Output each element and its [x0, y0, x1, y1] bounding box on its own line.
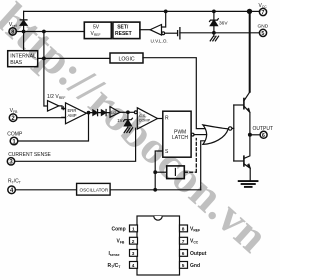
svg-text:R: R	[165, 116, 169, 122]
svg-text:Comp: Comp	[112, 226, 126, 232]
pin 8 Vref circle	[9, 28, 16, 35]
wire UVLO to battery	[165, 32, 178, 34]
pin 5 GND circle	[259, 29, 266, 36]
svg-text:Output: Output	[190, 251, 207, 257]
svg-text:SET/: SET/	[117, 25, 129, 31]
svg-text:CURRENT SENSE: CURRENT SENSE	[8, 152, 51, 158]
logic gate NOR	[203, 125, 228, 144]
wire S riser	[155, 151, 163, 190]
box 5V Vref	[84, 22, 111, 38]
svg-text:1: 1	[132, 227, 135, 233]
zener 36V	[213, 11, 215, 32]
wire osc riser to gate	[201, 141, 205, 190]
svg-text:7: 7	[182, 239, 185, 245]
wire diode chain	[89, 112, 111, 114]
pin 3 CURRENT SENSE circle	[7, 158, 14, 165]
svg-text:COMP: COMP	[7, 132, 23, 138]
pin 6 OUTPUT circle	[260, 131, 267, 138]
node dot UVLO tap	[164, 10, 168, 14]
node dot zener bottom	[212, 31, 216, 35]
svg-text:6: 6	[182, 251, 185, 257]
wire NOR out to bases	[232, 127, 234, 129]
transistor Q1 top	[243, 99, 245, 109]
wire pin4 to oscillator	[15, 189, 76, 191]
svg-text:VFB: VFB	[10, 108, 19, 114]
wire buffer to err amp	[59, 106, 66, 109]
wire to T box	[155, 171, 167, 173]
zener 1V clamp	[127, 112, 129, 128]
box LOGIC	[110, 53, 143, 63]
svg-text:5V: 5V	[93, 25, 100, 31]
diode D2	[93, 110, 97, 115]
T box one-shot	[167, 166, 185, 179]
CS comp input bubble	[134, 111, 137, 114]
node dot err out	[87, 111, 91, 115]
pin 3 box	[130, 250, 138, 257]
pin 8 box	[180, 225, 188, 232]
transistor Q2 bottom	[243, 156, 245, 166]
wire ground rail	[180, 32, 260, 34]
DIP-8 package pinout	[130, 216, 188, 275]
pin 1 COMP circle	[10, 137, 18, 145]
node dot S lower	[153, 188, 157, 192]
box SET/RESET	[113, 22, 140, 38]
svg-text:2: 2	[132, 239, 135, 245]
wire gain out	[120, 111, 128, 113]
svg-text:GND: GND	[258, 23, 269, 29]
pin 2 Vfb circle	[9, 114, 17, 122]
pin 6 box	[180, 250, 188, 257]
diode D3	[101, 110, 105, 115]
pin 5 box	[180, 262, 188, 269]
pin 7 Vcc circle	[259, 8, 266, 15]
wire top rail	[24, 10, 250, 12]
pin 4 RT/CT circle	[8, 186, 16, 194]
notch	[154, 216, 162, 220]
NOR output bubble	[229, 127, 232, 130]
svg-text:5: 5	[182, 263, 185, 269]
op-amp ERR AMP	[66, 103, 87, 124]
wire pin8 to 5V box	[16, 31, 84, 33]
wire base vertical	[233, 105, 235, 161]
internal bias box	[8, 51, 38, 67]
wire osc output	[110, 189, 201, 191]
ground symbol output	[239, 180, 258, 182]
pin 4 box	[130, 262, 138, 269]
svg-text:VCC: VCC	[190, 239, 199, 245]
node dot B	[42, 30, 46, 34]
diode D1 top-left	[20, 21, 27, 26]
wire bias to logic	[38, 57, 110, 59]
svg-text:VREF: VREF	[190, 226, 200, 232]
svg-text:RT/CT: RT/CT	[108, 263, 122, 269]
amp 1/2 Vref buffer	[48, 101, 59, 112]
wire logic down to gate	[143, 58, 205, 129]
svg-text:4: 4	[132, 263, 135, 269]
svg-text:OSCILLATOR: OSCILLATOR	[80, 188, 109, 193]
op-amp U.V.L.O. comparator	[150, 25, 161, 36]
battery reference symbol	[178, 28, 180, 39]
op-amp C.S. COMP	[137, 108, 157, 129]
svg-text:RESET: RESET	[115, 31, 132, 37]
svg-text:3: 3	[132, 251, 135, 257]
wire Q to gate	[194, 134, 207, 136]
node dot output	[248, 133, 252, 137]
svg-text:AMP: AMP	[68, 113, 77, 118]
wire Vref diode branch	[20, 11, 27, 50]
wire UVLO top input	[162, 11, 166, 27]
pulse symbol in T box	[174, 169, 176, 176]
svg-text:8: 8	[182, 227, 185, 233]
node dot T tap	[153, 170, 157, 174]
svg-text:36V: 36V	[219, 21, 228, 27]
node dot Vcc big	[247, 9, 252, 14]
wire base top	[234, 104, 244, 106]
svg-text:OUTPUT: OUTPUT	[253, 126, 274, 132]
amp 1/2 gain	[110, 107, 120, 118]
wire current sense	[15, 128, 136, 161]
svg-text:7: 7	[261, 10, 264, 16]
svg-text:Isense: Isense	[109, 251, 120, 257]
svg-text:VFB: VFB	[117, 239, 125, 245]
ground chassis below zener	[210, 33, 218, 41]
pin 1 box	[130, 225, 138, 232]
pwm latch box	[163, 111, 191, 157]
svg-text:RT/CT: RT/CT	[8, 178, 21, 184]
wire comp riser	[18, 113, 89, 141]
wire CS comp to R input	[158, 118, 163, 120]
node dot zener top	[212, 10, 216, 14]
pin 7 box	[180, 237, 188, 244]
UVLO input bubble	[162, 32, 165, 35]
svg-text:5: 5	[261, 31, 264, 37]
oscillator box	[77, 183, 111, 195]
wire dashed T to gate	[185, 139, 197, 173]
wire vertical bias feed	[44, 32, 48, 107]
wire Vcc thick rail	[249, 11, 251, 91]
svg-text:Gnd: Gnd	[190, 263, 200, 269]
svg-text:LOGIC: LOGIC	[119, 56, 135, 62]
wire setreset to UVLO	[140, 29, 150, 31]
IC body	[137, 216, 180, 275]
node dot clamp	[126, 110, 130, 114]
svg-text:6: 6	[262, 133, 265, 139]
ground chassis below 1V zener	[124, 128, 132, 133]
wire base bottom	[234, 160, 244, 162]
pin 2 box	[130, 237, 138, 244]
svg-text:U.V.L.O.: U.V.L.O.	[151, 39, 168, 44]
node dot A	[22, 30, 26, 34]
wire node to CS bubble	[128, 111, 134, 113]
svg-text:VCC: VCC	[259, 3, 268, 9]
latch Q bubble	[191, 133, 194, 136]
node dot C	[42, 57, 46, 61]
wire Vfb to err amp	[17, 117, 66, 119]
